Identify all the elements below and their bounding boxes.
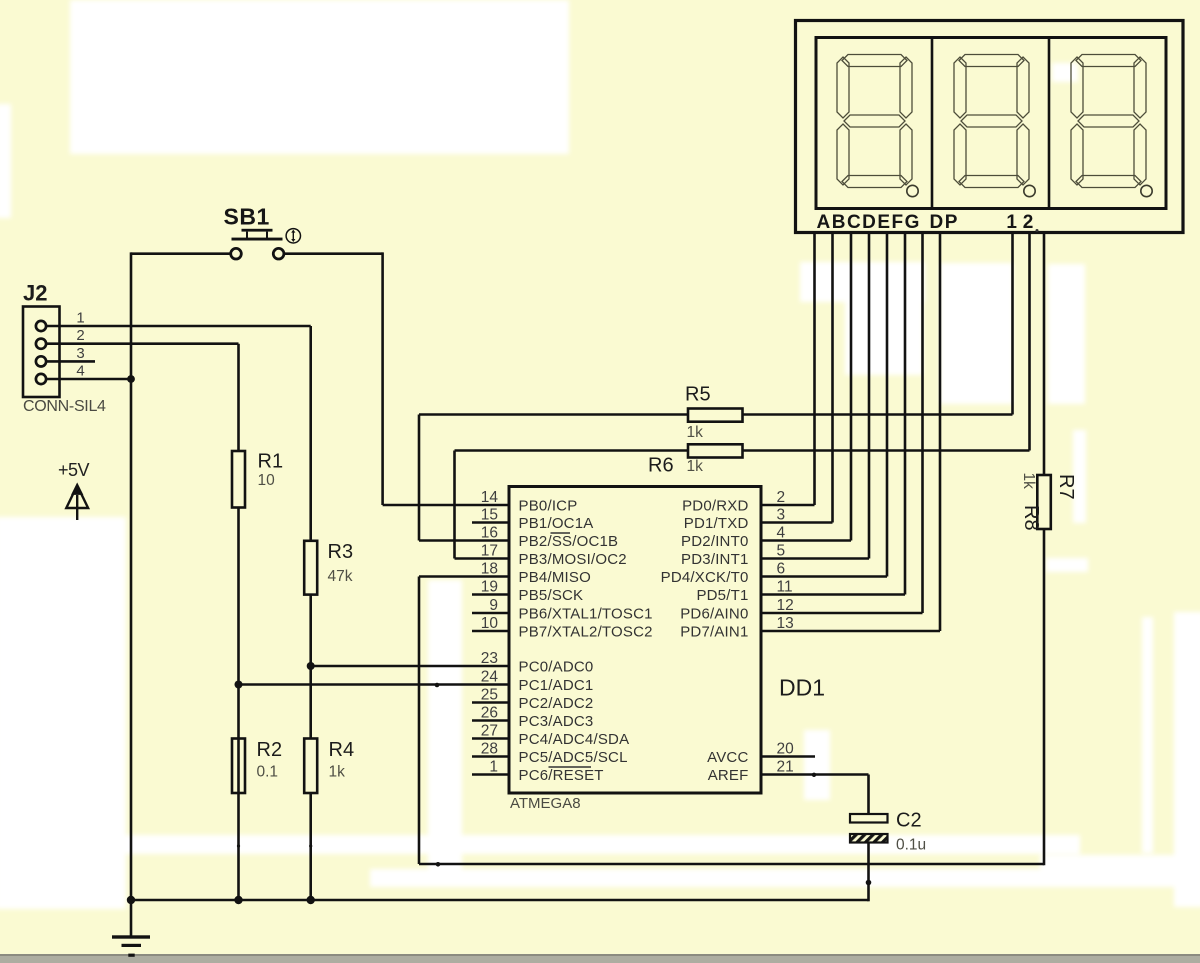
svg-text:R6: R6 <box>648 455 674 477</box>
wire: R5 left lead <box>419 413 688 416</box>
svg-text:R7: R7 <box>1055 474 1077 500</box>
push button SB1 top bar <box>242 229 273 232</box>
svg-text:9: 9 <box>489 597 498 614</box>
wire: PD4 pin 6 to segment E <box>761 575 887 578</box>
svg-text:14: 14 <box>481 489 499 506</box>
svg-text:25: 25 <box>481 687 498 704</box>
svg-text:DD1: DD1 <box>779 675 825 701</box>
push button SB1 cap side right <box>266 232 268 238</box>
7-segment digit 3 <box>1071 55 1146 188</box>
resistor R1 <box>232 451 245 508</box>
connector J2 <box>23 307 60 398</box>
display cell divider 1 <box>931 38 934 209</box>
resistor R5 <box>688 409 743 422</box>
push button SB1 left contact <box>231 248 242 259</box>
svg-text:5: 5 <box>777 543 786 560</box>
wire: J2 pin 1 to R3 <box>47 325 311 328</box>
wire: stub PC2 pin 25 <box>472 701 509 704</box>
svg-text:R1: R1 <box>258 451 284 473</box>
node bottom wire stray junction dot <box>436 862 441 867</box>
svg-text:16: 16 <box>481 525 498 542</box>
svg-text:PC6/RESET: PC6/RESET <box>519 767 604 784</box>
wire: SB1 right lead <box>284 252 383 255</box>
resistor R4 <box>304 739 317 794</box>
wire: stub PB7 pin 10 <box>472 630 509 633</box>
7-segment display inner box <box>816 38 1166 209</box>
+5V power arrow <box>66 486 88 509</box>
svg-text:PD0/RXD: PD0/RXD <box>682 498 748 515</box>
svg-text:27: 27 <box>481 723 498 740</box>
svg-text:1k: 1k <box>329 764 346 781</box>
svg-text:6: 6 <box>777 561 786 578</box>
svg-text:+5V: +5V <box>58 460 90 480</box>
resistor R3 <box>304 541 317 595</box>
bottom grey strip <box>0 955 1200 963</box>
svg-text:15: 15 <box>481 507 498 524</box>
svg-text:1k: 1k <box>687 458 704 475</box>
svg-text:PD6/AIN0: PD6/AIN0 <box>680 606 748 623</box>
node R2 speck junction dot <box>237 844 240 847</box>
svg-text:12: 12 <box>777 597 794 614</box>
svg-text:J2: J2 <box>23 281 47 306</box>
push button SB1 actuator circle with arrow <box>286 229 300 243</box>
svg-text:21: 21 <box>777 759 794 776</box>
wire: J2 pin 2 to R1 <box>47 342 239 345</box>
wire: PB4 vertical down <box>418 577 421 865</box>
svg-text:20: 20 <box>777 741 795 758</box>
wire: R6 left lead <box>455 449 689 452</box>
wire: R6 right lead to display pin 2 <box>743 449 1030 452</box>
svg-text:3: 3 <box>76 345 84 362</box>
node ground rail left junction dot <box>127 896 135 904</box>
capacitor C2 bottom plate (polarized hatch) <box>850 834 888 843</box>
node J2.4/+5V junction dot <box>127 375 135 383</box>
svg-text:PC4/ADC4/SDA: PC4/ADC4/SDA <box>519 731 630 748</box>
wire: PC1/ADC1 pin 24 <box>239 683 510 686</box>
wire: R1 top vertical <box>237 344 240 451</box>
wire: C2 top vertical <box>867 775 870 815</box>
display label dot <box>1036 229 1039 232</box>
connector J2 pin 2 circle <box>36 339 46 349</box>
wire: R5 right lead to display pin 1 <box>743 413 1013 416</box>
wire: stub PC5 pin 28 <box>472 755 509 758</box>
svg-text:R5: R5 <box>685 384 711 406</box>
svg-text:PD2/INT0: PD2/INT0 <box>681 533 748 550</box>
wire: PD1 pin 3 to segment B <box>761 521 833 524</box>
svg-text:PB4/MISO: PB4/MISO <box>519 569 591 586</box>
svg-text:PD3/INT1: PD3/INT1 <box>681 551 748 568</box>
svg-text:28: 28 <box>481 741 498 758</box>
svg-text:26: 26 <box>481 705 498 722</box>
wire: PD6 pin 12 to segment G <box>761 612 923 615</box>
svg-text:SB1: SB1 <box>224 204 270 230</box>
svg-text:PD1/TXD: PD1/TXD <box>684 515 749 532</box>
svg-text:0.1u: 0.1u <box>896 837 926 854</box>
svg-text:18: 18 <box>481 561 498 578</box>
svg-text:PC5/ADC5/SCL: PC5/ADC5/SCL <box>519 749 628 766</box>
decimal point of digit 3 <box>1141 185 1152 196</box>
svg-text:ABCDEFG: ABCDEFG <box>817 212 921 233</box>
wire: PD0 pin 2 to segment A <box>761 504 815 507</box>
node R4 bottom junction dot <box>307 896 315 904</box>
svg-text:1: 1 <box>1006 212 1017 233</box>
svg-text:1k: 1k <box>687 424 704 441</box>
wire: J2 pin 3 stub <box>47 360 96 363</box>
capacitor C2 top plate <box>850 814 888 823</box>
wire: PD2 pin 4 to segment C <box>761 539 851 542</box>
wire: PD5 pin 11 to segment F <box>761 593 905 596</box>
wire: PD3 pin 5 to segment D <box>761 557 869 560</box>
wire: AREF pin 21 to C2 <box>761 773 869 776</box>
resistor R6 <box>688 444 743 457</box>
svg-text:10: 10 <box>481 615 499 632</box>
wire: PB2/SS/OC1B pin 16 <box>419 539 509 542</box>
svg-text:0.1: 0.1 <box>257 764 279 781</box>
svg-text:4: 4 <box>76 363 84 380</box>
wire: AVCC pin 20 stub <box>761 755 815 758</box>
7-segment display module outer box <box>796 21 1184 233</box>
svg-text:R8: R8 <box>1020 505 1042 531</box>
push button SB1 bottom bar <box>232 238 283 241</box>
push button SB1 cap side left <box>246 232 248 238</box>
svg-text:10: 10 <box>258 472 276 489</box>
svg-text:PC1/ADC1: PC1/ADC1 <box>519 677 594 694</box>
svg-text:PB6/XTAL1/TOSC1: PB6/XTAL1/TOSC1 <box>519 606 653 623</box>
wire: stub PB1 pin 15 <box>472 521 509 524</box>
svg-text:1: 1 <box>76 310 84 327</box>
wire: display digit pin 1 vertical <box>1011 233 1014 415</box>
wire: PB4/MISO pin 18 <box>419 575 509 578</box>
node AREF stray junction dot <box>812 773 816 777</box>
svg-text:PB7/XTAL2/TOSC2: PB7/XTAL2/TOSC2 <box>519 624 653 641</box>
overline of RESET on PC6 <box>549 766 592 768</box>
node PC1 stray junction dot <box>435 683 440 688</box>
wire: R5 to PB2 vertical <box>418 415 421 541</box>
wire: +5V net vertical (J2.4 / SB1 left / ground) <box>130 252 133 935</box>
wire: SB1 to PB0 vertical <box>381 252 384 505</box>
svg-text:R4: R4 <box>329 739 355 761</box>
wire: R7/R8 bottom vertical <box>1043 529 1046 865</box>
svg-text:1k: 1k <box>1020 473 1037 490</box>
resistor R2 <box>232 739 245 794</box>
svg-text:13: 13 <box>777 615 794 632</box>
wire: R6 to PB3 vertical <box>453 451 456 559</box>
svg-text:PD4/XCK/T0: PD4/XCK/T0 <box>661 569 749 586</box>
decimal point of digit 2 <box>1024 185 1035 196</box>
svg-text:4: 4 <box>777 525 786 542</box>
svg-text:PC3/ADC3: PC3/ADC3 <box>519 713 594 730</box>
svg-text:R2: R2 <box>257 739 283 761</box>
svg-text:2: 2 <box>76 327 84 344</box>
svg-text:PC0/ADC0: PC0/ADC0 <box>519 659 594 676</box>
svg-text:PC2/ADC2: PC2/ADC2 <box>519 695 594 712</box>
resistor R7/R8 stack <box>1037 475 1051 529</box>
node R4 speck junction dot <box>309 844 312 847</box>
display cell divider 2 <box>1048 38 1051 209</box>
svg-text:PB5/SCK: PB5/SCK <box>519 587 584 604</box>
overline of SS on PB2 <box>551 532 571 534</box>
wire: R1 bottom to ground rail <box>237 508 240 901</box>
7-segment digit 2 <box>954 55 1029 188</box>
svg-text:PD7/AIN1: PD7/AIN1 <box>680 624 748 641</box>
wire: stub PB6 pin 9 <box>472 612 509 615</box>
wire: ground rail <box>131 899 869 902</box>
op-amp U1 IC DD1 ATMEGA8 body <box>509 487 761 794</box>
svg-text:CONN-SIL4: CONN-SIL4 <box>23 398 106 415</box>
push button SB1 right contact <box>273 248 284 259</box>
wire: R4 bottom to ground rail <box>309 793 312 900</box>
wire: stub PC6 pin 1 <box>472 773 509 776</box>
svg-text:AVCC: AVCC <box>707 749 748 766</box>
svg-text:R3: R3 <box>328 541 354 563</box>
wire: display digit pin 3 to R7 <box>1043 233 1046 476</box>
svg-text:ATMEGA8: ATMEGA8 <box>510 795 581 812</box>
svg-text:3: 3 <box>777 507 786 524</box>
svg-text:PB1/OC1A: PB1/OC1A <box>519 515 594 532</box>
node C2 leg junction dot <box>866 880 872 886</box>
svg-text:23: 23 <box>481 650 498 667</box>
wire: bottom horizontal PB4 to R8 <box>419 863 1044 866</box>
wire: display digit pin 2 vertical <box>1028 233 1031 451</box>
connector J2 pin 1 circle <box>36 321 46 331</box>
svg-text:17: 17 <box>481 543 498 560</box>
svg-text:2: 2 <box>777 489 786 506</box>
svg-text:1: 1 <box>489 759 498 776</box>
svg-text:11: 11 <box>777 579 793 596</box>
svg-text:AREF: AREF <box>708 767 749 784</box>
svg-text:PD5/T1: PD5/T1 <box>696 587 748 604</box>
wire: R3 bottom to R4 top <box>309 595 312 739</box>
wire: SB1 left lead <box>131 252 231 255</box>
svg-text:PB0/ICP: PB0/ICP <box>519 498 578 515</box>
svg-text:47k: 47k <box>328 568 353 585</box>
wire: stub PC4 pin 27 <box>472 737 509 740</box>
svg-text:2: 2 <box>1023 212 1034 233</box>
node R2 bottom junction dot <box>234 896 242 904</box>
wire: PB0/ICP pin 14 <box>383 504 509 507</box>
connector J2 pin 4 circle <box>36 374 46 384</box>
decimal point of digit 1 <box>907 185 918 196</box>
svg-text:19: 19 <box>481 579 498 596</box>
node R1/PC1 junction dot <box>235 681 243 689</box>
svg-text:C2: C2 <box>896 810 922 832</box>
wire: stub PC3 pin 26 <box>472 719 509 722</box>
svg-text:PB2/SS/OC1B: PB2/SS/OC1B <box>519 533 619 550</box>
wire: C2 bottom to ground rail <box>867 843 870 902</box>
wire: stub PB5 pin 19 <box>472 593 509 596</box>
ground <box>112 935 150 938</box>
wire: J2 pin 4 to +5V net <box>47 378 132 381</box>
wire: PD7 pin 13 to segment DP <box>761 630 940 633</box>
svg-text:PB3/MOSI/OC2: PB3/MOSI/OC2 <box>519 551 627 568</box>
connector J2 pin 3 circle <box>36 356 46 366</box>
7-segment digit 1 <box>837 55 912 188</box>
wire: R3 top vertical <box>309 326 312 541</box>
wire: PB3/MOSI/OC2 pin 17 <box>455 557 510 560</box>
svg-text:DP: DP <box>930 212 959 233</box>
node R3/PC0 junction dot <box>307 662 315 670</box>
wire: PC0/ADC0 pin 23 <box>311 665 509 668</box>
svg-text:24: 24 <box>481 669 499 686</box>
